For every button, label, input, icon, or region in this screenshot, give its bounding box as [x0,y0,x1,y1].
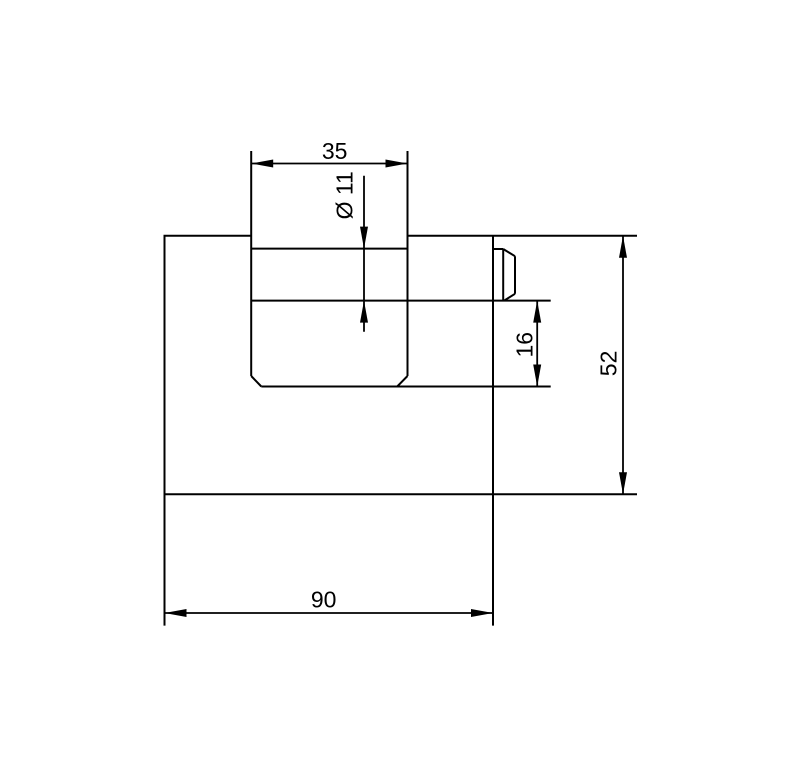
locking pin inner vertical [502,249,504,301]
shackle channel top edge [251,248,407,250]
locking pin bottom chamfer [504,294,515,301]
svg-text:16: 16 [512,332,538,358]
body bottom edge + 52-dim extension [164,493,638,495]
dim line 90 [165,612,494,614]
svg-text:Ø 11: Ø 11 [331,171,357,219]
shackle left side + 35-dim extension [250,151,252,376]
arrow 16 down [533,365,541,387]
body top edge left segment [164,235,252,237]
arrow 35 left [251,160,273,168]
body left edge + 90-dim extension [164,236,166,626]
dim line 52 [622,236,624,494]
locking pin right face [514,256,516,294]
arrow 90 left [165,609,187,617]
shackle channel bottom edge + 16-dim extension [251,300,551,302]
shackle bottom edge + 16-dim extension [261,386,550,388]
locking pin top edge [493,248,503,250]
dim line 16 [536,301,538,387]
shackle left bottom chamfer [251,376,261,387]
arrow 90 right [471,609,493,617]
arrow 16 up [533,301,541,323]
svg-text:90: 90 [311,587,337,613]
body top edge right segment + 52-dim extension [408,235,638,237]
body right edge + 90-dim extension [492,236,494,626]
arrow d11 down (tip on channel top) [360,227,368,249]
arrow d11 up (tip on channel bottom) [360,301,368,323]
arrow 52 down [619,472,627,494]
dim line 35 [251,163,407,165]
shackle right side + 35-dim extension [407,151,409,376]
locking pin top chamfer [503,249,515,256]
svg-text:35: 35 [322,138,348,164]
svg-text:52: 52 [596,351,622,377]
dim line diameter 11 [363,176,365,332]
arrow 35 right [386,160,408,168]
arrow 52 up [619,236,627,258]
shackle right bottom chamfer [397,376,407,387]
